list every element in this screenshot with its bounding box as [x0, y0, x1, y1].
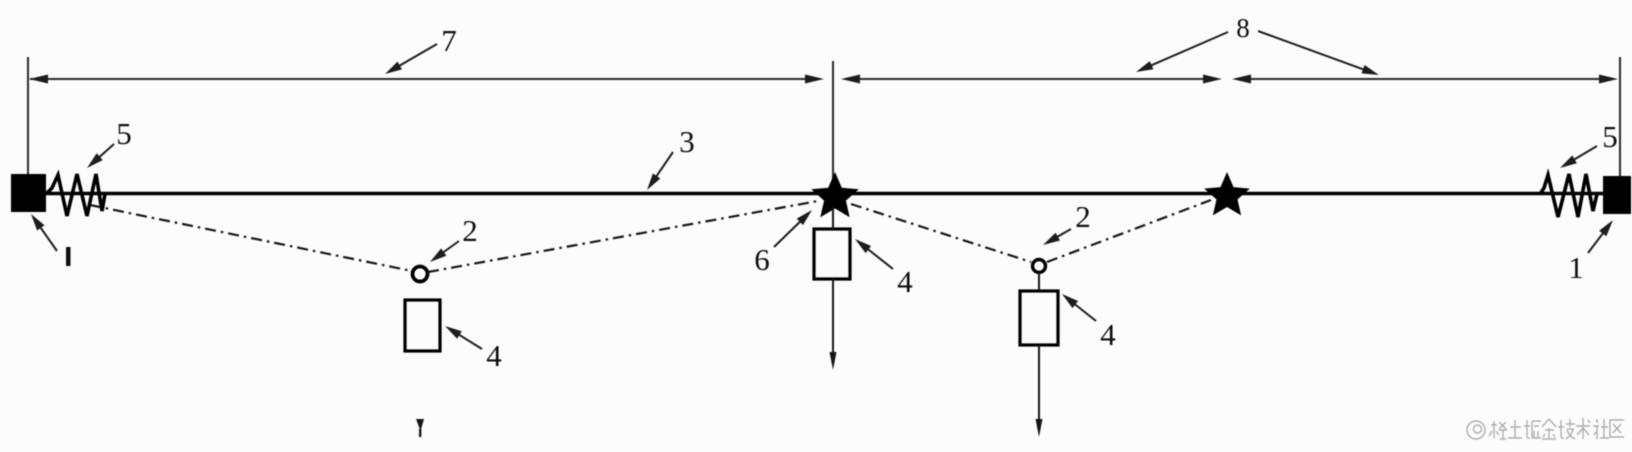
svg-text:4: 4	[897, 264, 913, 299]
svg-text:6: 6	[754, 242, 770, 277]
svg-text:1: 1	[1568, 250, 1584, 285]
svg-text:2: 2	[462, 213, 478, 248]
svg-text:3: 3	[679, 124, 695, 159]
svg-text:4: 4	[486, 338, 502, 373]
svg-text:2: 2	[1075, 199, 1091, 234]
svg-text:5: 5	[116, 116, 132, 151]
svg-text:5: 5	[1602, 119, 1618, 154]
svg-text:4: 4	[1100, 317, 1116, 352]
svg-text:8: 8	[1236, 13, 1250, 43]
svg-text:7: 7	[441, 23, 457, 58]
